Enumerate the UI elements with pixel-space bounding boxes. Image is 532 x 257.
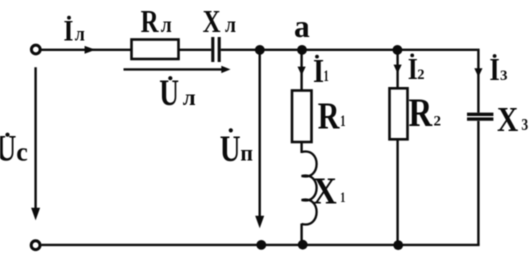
svg-text:л: л (161, 12, 172, 38)
svg-text:1: 1 (340, 189, 345, 205)
svg-text:2: 2 (417, 67, 424, 83)
svg-text:X: X (203, 5, 221, 39)
svg-text:1: 1 (340, 112, 345, 130)
svg-text:л: л (225, 12, 236, 38)
svg-text:R: R (409, 90, 433, 135)
svg-text:л: л (183, 85, 196, 110)
svg-text:c: c (16, 137, 28, 166)
svg-text:п: п (240, 140, 253, 166)
svg-text:U: U (220, 129, 241, 170)
svg-text:a: a (294, 9, 310, 44)
svg-text:3: 3 (521, 116, 528, 135)
svg-text:R: R (318, 95, 341, 137)
svg-text:I: I (64, 15, 74, 48)
svg-text:I: I (489, 53, 499, 87)
svg-text:X: X (313, 169, 337, 212)
svg-text:X: X (497, 99, 518, 138)
svg-text:R: R (141, 5, 159, 39)
svg-text:2: 2 (434, 114, 442, 130)
svg-text:3: 3 (500, 68, 508, 84)
svg-text:л: л (75, 24, 85, 46)
svg-text:1: 1 (324, 67, 329, 85)
